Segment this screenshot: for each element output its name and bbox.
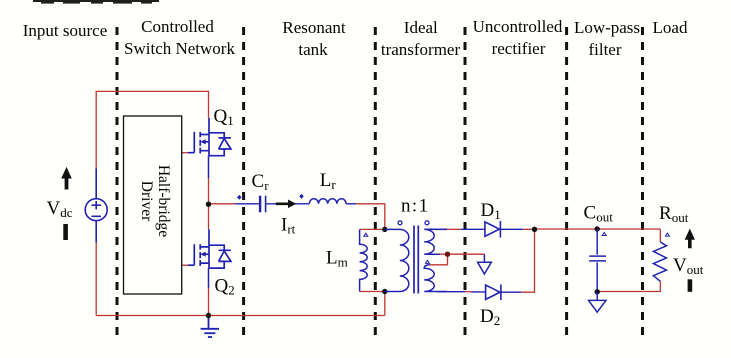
polarity mark at Lm top [364, 233, 368, 236]
svg-text:filter: filter [588, 40, 621, 59]
svg-text:rectifier: rectifier [492, 39, 546, 58]
polarity dot primary [398, 221, 402, 225]
svg-text:Q1: Q1 [214, 106, 234, 128]
polarity mark near Lr [299, 194, 304, 199]
wire: Lm top lead [360, 228, 385, 230]
capacitor Cr [260, 196, 266, 213]
node: half-bridge midpoint [206, 202, 211, 207]
polarity mark secondary lower [426, 260, 430, 263]
svg-text:Lm: Lm [326, 248, 348, 270]
polarity mark near Cr [237, 195, 242, 200]
wire: D1 cathode to junction [523, 228, 535, 230]
dashed separator line 6 [641, 27, 644, 338]
dashed separator line 5 [565, 27, 568, 338]
wire: Lm bottom lead [360, 291, 385, 293]
svg-text:D2: D2 [480, 306, 500, 328]
svg-text:Irt: Irt [281, 215, 296, 237]
svg-text:Switch Network: Switch Network [124, 39, 235, 58]
polarity bar below Vdc [63, 224, 68, 240]
node: rectifier output junction [532, 227, 537, 232]
wire: D2 cathode out [501, 291, 522, 293]
dashed separator line 1 [116, 27, 119, 338]
transformer secondary lower winding [424, 265, 447, 292]
svg-text:Input source: Input source [23, 21, 108, 40]
polarity mark at Rout [665, 233, 669, 236]
wire: Lr to transformer primary top [356, 204, 385, 230]
Q2 body arrow head [200, 252, 206, 257]
capacitor Cout [589, 229, 606, 292]
wire: center tap to ground triangle [440, 253, 484, 255]
dashed separator line 3 [374, 27, 377, 338]
wire: primary bottom to ground rail [384, 292, 386, 316]
svg-text:Vdc: Vdc [47, 198, 73, 220]
transistor Q2 (MOSFET with body diode) [188, 229, 231, 268]
wire: secondary bottom to D2 [437, 291, 486, 293]
wire: Cr to Lr [266, 203, 309, 205]
arrow: input current direction [61, 167, 72, 190]
node: primary bottom [382, 289, 387, 294]
svg-text:Uncontrolled: Uncontrolled [473, 17, 563, 36]
svg-text:Resonant: Resonant [282, 18, 346, 37]
transformer core [414, 226, 418, 294]
inductor Lm (magnetizing) [360, 229, 368, 291]
wire: top rail from Vdc to Q1 drain [96, 91, 208, 168]
voltage source Vdc [85, 168, 107, 242]
center-tap ground triangle [478, 254, 492, 274]
svg-text:Ideal: Ideal [404, 18, 438, 37]
ground (under Q2) [201, 316, 219, 338]
wire: D1 cathode out [500, 228, 522, 230]
wire: Rout top lead [659, 229, 661, 242]
half-bridge driver box U1 [124, 116, 182, 294]
wire: Rout bottom lead and bottom output rail [597, 281, 660, 291]
arrow: output voltage direction [685, 229, 695, 249]
svg-text:Half-bridgeDriver: Half-bridgeDriver [138, 165, 172, 237]
inductor Lr [309, 199, 346, 204]
wire: Q2 source to ground node [208, 288, 210, 316]
node: center tap [445, 252, 450, 257]
wire: node to Cr [209, 203, 236, 205]
svg-text:tank: tank [298, 40, 328, 59]
wire: midpoint node down to Q2 drain [208, 204, 210, 229]
node: ground junction [206, 313, 211, 318]
wire: Q1 gate lead red part [182, 152, 188, 154]
Q1 body arrow head [200, 139, 206, 144]
svg-text:Vout: Vout [673, 255, 704, 277]
wire: secondary top to D1 [427, 228, 485, 230]
diode D1 [485, 221, 501, 238]
svg-text:Q2: Q2 [215, 276, 235, 298]
node: Cout top [595, 226, 600, 231]
node: Cout bottom [595, 289, 600, 294]
diode D2 [486, 285, 501, 301]
resistor Rout [653, 242, 666, 281]
wire: bottom ground rail [96, 315, 385, 317]
wire: Q1 source to midpoint node [208, 178, 210, 204]
node: primary top [382, 227, 387, 232]
transformer secondary upper winding [424, 229, 447, 254]
polarity dot secondary [425, 221, 429, 225]
center tap step wire [430, 254, 448, 265]
dashed separator line 2 [242, 27, 245, 338]
polarity mark at Cout [602, 232, 606, 235]
wire: Vdc bottom to bottom rail [95, 242, 97, 315]
svg-text:Rout: Rout [659, 203, 689, 225]
svg-text:Lr: Lr [320, 170, 337, 192]
wire: secondary top lead red segment [447, 228, 461, 230]
wire: secondary bottom red segment [465, 291, 472, 293]
polarity bar below Vout [688, 279, 693, 292]
Q2 source lead blue [208, 268, 210, 288]
svg-text:Low-pass: Low-pass [574, 18, 640, 37]
arrow Irt (resonant current) [276, 200, 296, 209]
svg-text:Cout: Cout [584, 203, 614, 225]
wire: Lr out blue part [346, 203, 356, 205]
svg-text:Cr: Cr [252, 171, 270, 193]
wire: Q2 gate lead red part [182, 264, 188, 266]
svg-text:Load: Load [653, 18, 688, 37]
wire: positive output rail [535, 228, 661, 230]
Cout ground triangle [589, 292, 607, 312]
Q1 source lead blue [208, 156, 210, 178]
transistor Q1 (MOSFET with body diode) [188, 118, 231, 156]
svg-text:n:1: n:1 [401, 196, 429, 217]
cropped text remnant at top [33, 0, 159, 4]
svg-text:transformer: transformer [381, 40, 461, 59]
svg-text:D1: D1 [481, 200, 501, 222]
wire: node to Cr blue part [236, 203, 259, 205]
svg-text:Controlled: Controlled [141, 17, 214, 36]
transformer primary winding [385, 229, 409, 291]
wire: junction down to D2 cathode [521, 229, 534, 292]
dashed separator line 4 [464, 27, 467, 338]
